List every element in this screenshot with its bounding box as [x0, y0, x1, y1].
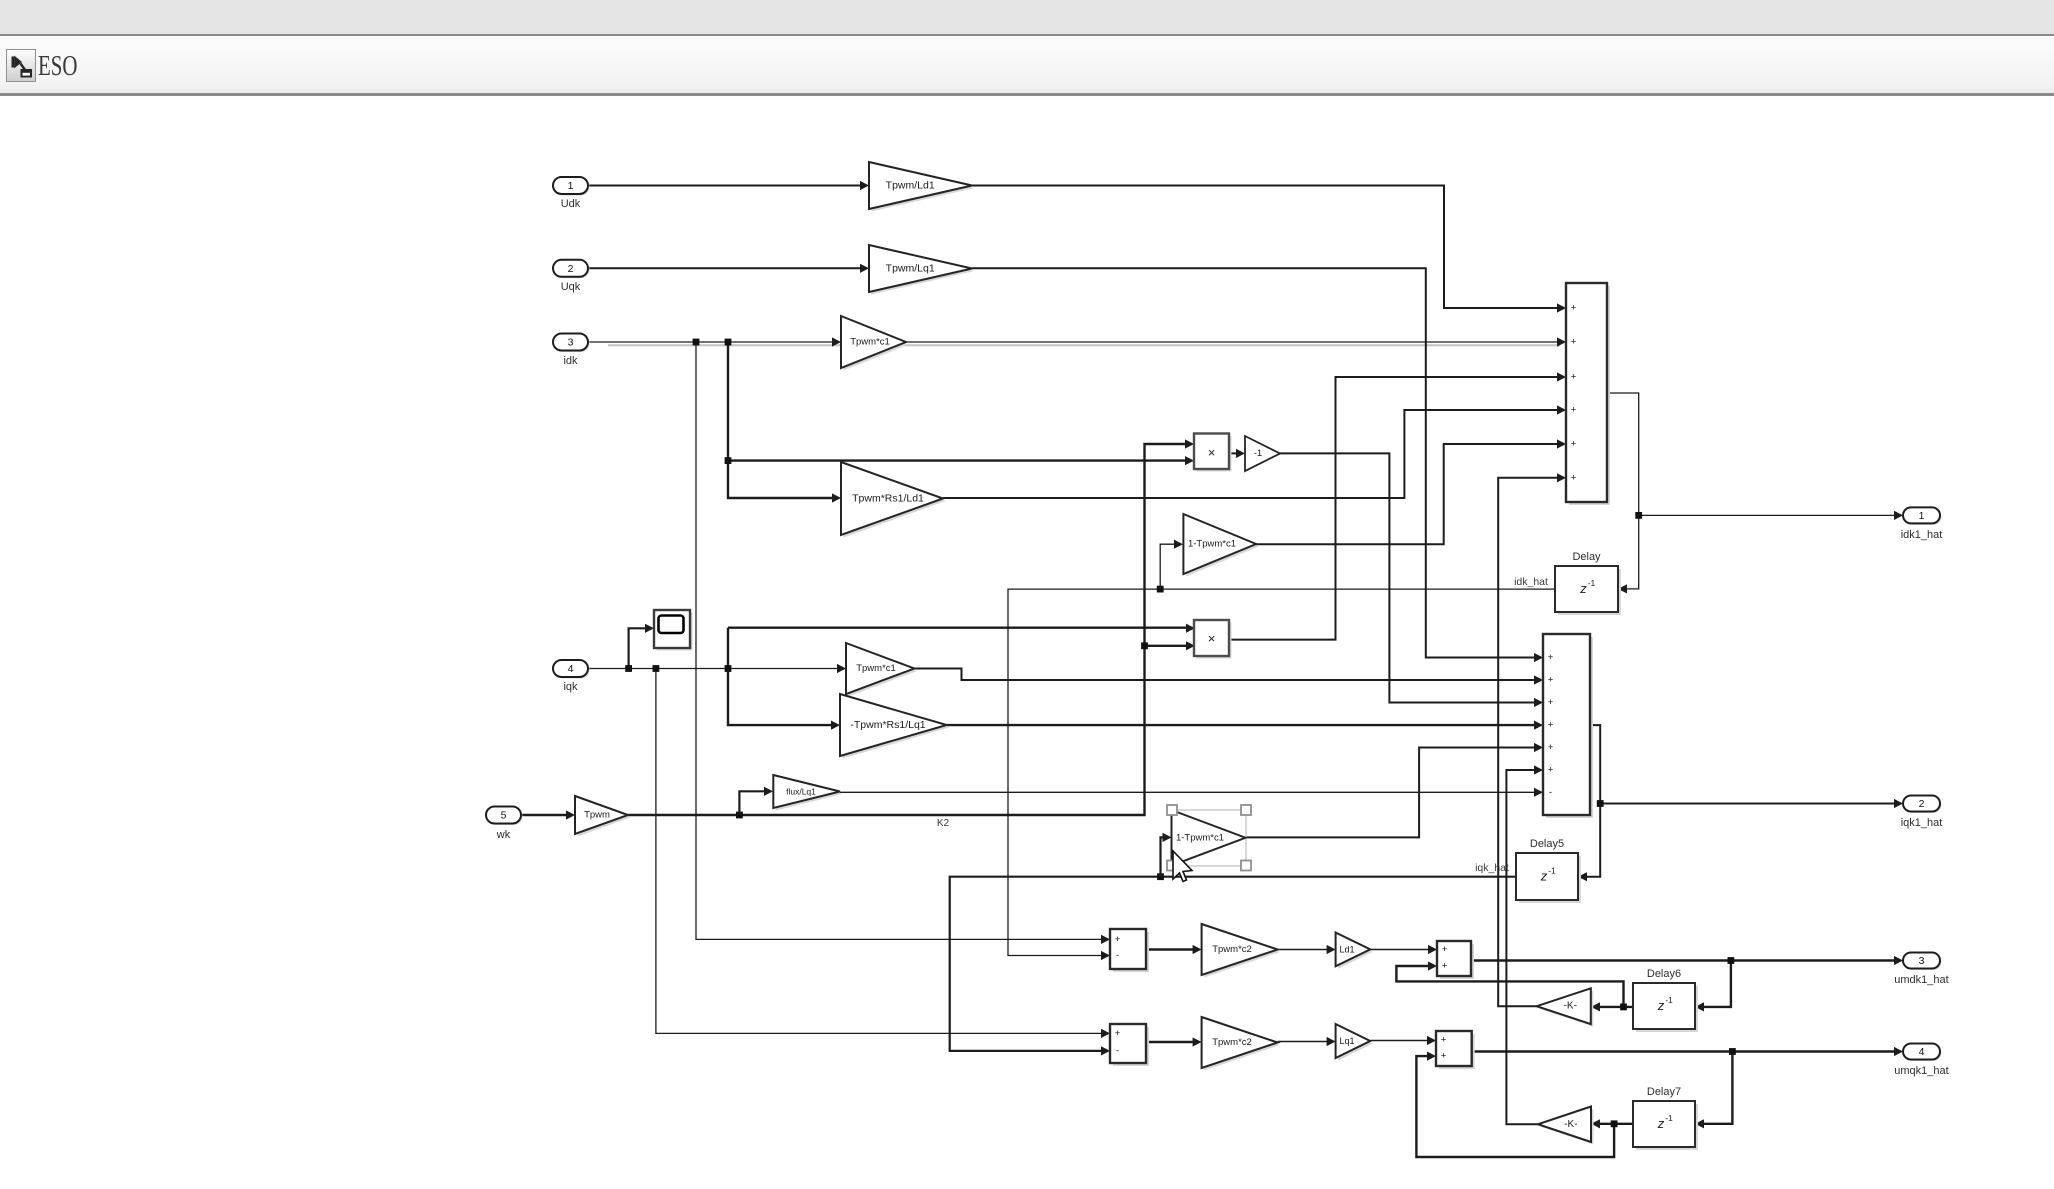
gain -Tpwm*Rs1/Lq1: [840, 694, 949, 759]
Delay block (z^-1) with signal label idk_hat: [1514, 551, 1621, 615]
svg-text:+: +: [1548, 720, 1554, 731]
gain -K- second: [1538, 1107, 1594, 1145]
svg-text:Udk: Udk: [561, 198, 581, 210]
wire: iqk_hat junction up into selected gain 1-Tpwm*c1: [1161, 833, 1172, 877]
svg-text:umdk1_hat: umdk1_hat: [1894, 974, 1948, 986]
svg-text:Tpwm/Ld1: Tpwm/Ld1: [886, 180, 935, 192]
svg-text:idk_hat: idk_hat: [1514, 576, 1548, 588]
input port 4 iqk: [553, 660, 590, 693]
wire: iqk branch to product X2 input1 and gain -Tpwm*Rs1/Lq1: [725, 624, 1195, 730]
gain flux/Lq1: [773, 775, 842, 811]
svg-text:iqk: iqk: [563, 681, 578, 693]
output port 4 umqk1_hat: [1894, 1044, 1948, 1078]
svg-text:+: +: [1548, 675, 1554, 686]
wire: gain Tpwm*c1 second to sum S2 input2: [914, 669, 1543, 685]
svg-text:×: ×: [1208, 631, 1216, 646]
Delay7 block (z^-1): [1633, 1086, 1698, 1150]
svg-text:+: +: [1571, 372, 1577, 383]
selected gain 1-Tpwm*c1 second with selection handles: [1167, 805, 1251, 871]
wire: sum S4 output to outport4 and Delay7: [1472, 1047, 1903, 1129]
svg-text:z: z: [1540, 869, 1548, 884]
svg-text:+: +: [1571, 337, 1577, 348]
svg-text:Delay6: Delay6: [1647, 968, 1681, 980]
subsystem icon button: [6, 49, 36, 82]
gain Ld1: [1336, 933, 1373, 969]
output port 3 umdk1_hat: [1894, 953, 1948, 987]
Delay5 block (z^-1) with signal label iqk_hat: [1475, 838, 1581, 903]
svg-text:-K-: -K-: [1564, 1119, 1577, 1130]
input port 1 Udk: [553, 177, 590, 210]
wire: selected gain 1-Tpwm*c1 to sum S2 input5: [1246, 743, 1544, 838]
svg-text:+: +: [1571, 439, 1577, 450]
svg-text:-: -: [1116, 1045, 1119, 1056]
gray drag-shadow under idk wire: [608, 344, 1560, 346]
svg-text:+: +: [1115, 1028, 1121, 1039]
svg-text:×: ×: [1208, 445, 1216, 460]
svg-text:+: +: [1548, 652, 1554, 663]
svg-text:Tpwm*c1: Tpwm*c1: [856, 663, 896, 674]
wire: iqk branch up to scope: [625, 624, 654, 672]
sum S1: [1566, 283, 1610, 505]
svg-text:-Tpwm*Rs1/Lq1: -Tpwm*Rs1/Lq1: [850, 719, 925, 731]
window top gray bar: [0, 0, 2054, 36]
svg-text:-: -: [1549, 787, 1552, 798]
svg-text:z: z: [1579, 581, 1587, 596]
gain Tpwm*c1 second: [846, 643, 917, 697]
svg-text:-1: -1: [1254, 448, 1262, 459]
wire: gain Tpwm/Lq1 to sum S2 input1: [972, 268, 1543, 662]
svg-text:K2: K2: [937, 818, 950, 829]
wire: idk_hat feedback from Delay to sum S5 minus input: [1008, 586, 1555, 960]
svg-text:iqk_hat: iqk_hat: [1475, 862, 1509, 874]
wire: gain -1 to sum S2 input3: [1280, 453, 1543, 707]
svg-text:1-Tpwm*c1: 1-Tpwm*c1: [1188, 539, 1236, 550]
svg-text:-1: -1: [1548, 866, 1556, 876]
wire: sum S5 to gain Tpwm*c2: [1146, 945, 1202, 954]
svg-text:-1: -1: [1665, 1113, 1673, 1123]
svg-text:Tpwm/Lq1: Tpwm/Lq1: [886, 263, 935, 275]
svg-text:z: z: [1657, 998, 1665, 1013]
gain Tpwm*c1: [841, 316, 909, 371]
wire: sum S3 output to outport3 and Delay6: [1471, 956, 1903, 1012]
wire: product X1 to gain -1: [1229, 449, 1245, 458]
svg-text:+: +: [1115, 934, 1121, 945]
svg-text:+: +: [1571, 473, 1577, 484]
svg-text:Tpwm*c1: Tpwm*c1: [850, 337, 890, 348]
sum S3: [1437, 941, 1474, 979]
svg-text:+: +: [1571, 405, 1577, 416]
output port 1 idk1_hat: [1901, 507, 1943, 541]
wire: product X2 to sum S1 input3: [1229, 372, 1566, 639]
gain Tpwm*c2 second: [1202, 1017, 1281, 1071]
input port 2 Uqk: [553, 260, 590, 293]
svg-text:umqk1_hat: umqk1_hat: [1894, 1065, 1948, 1077]
mouse cursor: [1173, 851, 1192, 882]
svg-text:Tpwm*Rs1/Ld1: Tpwm*Rs1/Ld1: [852, 493, 924, 505]
wire: Delay7 output to gain -K- second and around to sum S4 input2: [1416, 1052, 1633, 1158]
svg-text:2: 2: [568, 263, 574, 275]
wire: gain -Tpwm*Rs1/Lq1 to sum S2 input4: [947, 721, 1543, 730]
svg-text:+: +: [1548, 765, 1554, 776]
product X1: [1194, 434, 1232, 472]
svg-text:-1: -1: [1665, 995, 1673, 1005]
wire: gain -K- output up to sum S1 input6: [1498, 473, 1566, 1006]
Delay6 block (z^-1): [1633, 968, 1698, 1032]
wire: gain Tpwm*c1 to sum S1 input2: [906, 337, 1566, 346]
gain Tpwm/Ld1: [869, 162, 975, 212]
wire: gain -K- second output up to sum S2 input6: [1506, 765, 1543, 1124]
svg-text:Tpwm*c2: Tpwm*c2: [1212, 1037, 1252, 1048]
gain Tpwm K2: [575, 796, 631, 837]
wire: gain Tpwm output along wk line up to product X1 input1 and X2 input2: [628, 439, 1195, 818]
svg-text:1-Tpwm*c1: 1-Tpwm*c1: [1176, 832, 1224, 843]
wire: port3 idk to gain Tpwm*c1: [588, 337, 841, 346]
wire: sum S1 output to outport1 and Delay: [1607, 393, 1903, 594]
svg-text:1: 1: [1919, 510, 1925, 522]
wire: sum S2 output to outport2 and Delay5: [1578, 725, 1903, 881]
wire: gain Tpwm*c2 to gain Ld1: [1278, 945, 1336, 954]
wire: gain 1-Tpwm*c1 to sum S1 input5: [1256, 439, 1566, 544]
svg-text:iqk1_hat: iqk1_hat: [1901, 817, 1943, 829]
sum S4: [1436, 1031, 1475, 1069]
svg-text:flux/Lq1: flux/Lq1: [786, 787, 816, 797]
svg-text:Tpwm: Tpwm: [584, 810, 610, 821]
svg-text:+: +: [1442, 961, 1448, 972]
wire: gain Ld1 to sum S3 input1: [1370, 945, 1437, 954]
breadcrumb bar: [0, 37, 2054, 96]
scope block: [654, 610, 693, 651]
wire: gain Tpwm*Rs1/Ld1 to sum S1 input4: [943, 405, 1566, 498]
wire: gain Tpwm/Ld1 to sum S1 input1: [972, 186, 1566, 313]
sum S6: [1110, 1024, 1149, 1066]
svg-text:1: 1: [568, 180, 574, 192]
wire: port5 wk to gain Tpwm: [521, 810, 575, 819]
svg-text:+: +: [1548, 697, 1554, 708]
wire: iqk branch down to sum S6 plus input: [653, 665, 1111, 1038]
gain Tpwm*c2: [1202, 924, 1281, 978]
svg-text:4: 4: [568, 663, 574, 675]
svg-text:3: 3: [568, 337, 574, 349]
wire: port2 Uqk to gain Tpwm/Lq1: [588, 264, 869, 273]
svg-text:+: +: [1442, 944, 1448, 955]
svg-text:Delay7: Delay7: [1647, 1086, 1681, 1098]
sum S2: [1543, 634, 1593, 818]
svg-text:z: z: [1657, 1116, 1665, 1131]
input port 5 wk: [486, 807, 523, 842]
input port 3 idk: [553, 334, 590, 368]
gain Tpwm/Lq1: [869, 245, 975, 295]
output port 2 iqk1_hat: [1901, 796, 1943, 830]
svg-text:-K-: -K-: [1564, 1001, 1577, 1012]
wire: idk_hat junction up into gain 1-Tpwm*c1: [1160, 540, 1183, 590]
svg-text:Delay: Delay: [1572, 551, 1601, 563]
sum S5: [1110, 929, 1149, 972]
svg-text:+: +: [1441, 1035, 1447, 1046]
wire: iqk_hat feedback from Delay5 to sum S6 minus input: [950, 873, 1516, 1055]
svg-text:+: +: [1571, 303, 1577, 314]
wire: Delay6 output to gain -K- and up to sum S3 input2: [1396, 961, 1633, 1011]
wire: port1 Udk to gain Tpwm/Ld1: [588, 181, 869, 190]
svg-text:Ld1: Ld1: [1339, 944, 1354, 954]
gain -1: [1245, 436, 1280, 471]
svg-text:+: +: [1548, 742, 1554, 753]
svg-text:+: +: [1441, 1051, 1447, 1062]
wire: gain Lq1 to sum S4 input1: [1370, 1036, 1436, 1045]
product X2: [1194, 620, 1232, 659]
wire: gain flux/Lq1 to sum S2 minus input7: [840, 788, 1543, 797]
svg-text:Uqk: Uqk: [561, 281, 581, 293]
gain 1-Tpwm*c1: [1183, 514, 1258, 577]
svg-text:idk: idk: [563, 355, 578, 367]
svg-text:idk1_hat: idk1_hat: [1901, 529, 1943, 541]
wire: port4 iqk to gain Tpwm*c1 second: [588, 664, 846, 673]
svg-text:2: 2: [1919, 798, 1925, 810]
svg-text:Lq1: Lq1: [1339, 1036, 1354, 1046]
gain Lq1: [1336, 1024, 1373, 1061]
gain Tpwm*Rs1/Ld1: [841, 462, 946, 538]
gain -K-: [1537, 988, 1594, 1026]
svg-text:Delay5: Delay5: [1530, 838, 1564, 850]
svg-text:5: 5: [501, 810, 507, 822]
wire: sum S6 to gain Tpwm*c2 second: [1146, 1037, 1202, 1046]
wire: gain Tpwm*c2 second to gain Lq1: [1278, 1037, 1336, 1046]
svg-text:3: 3: [1919, 955, 1925, 967]
wire: idk branch down to product X1 input2 and gain Tpwm*Rs1/Ld1: [725, 339, 1194, 503]
svg-text:wk: wk: [496, 829, 511, 841]
svg-text:4: 4: [1919, 1046, 1925, 1058]
wire: idk branch down to sum S5 plus input: [693, 339, 1110, 944]
svg-text:-1: -1: [1588, 578, 1596, 588]
wire: wk branch up to gain flux/Lq1: [739, 787, 773, 815]
svg-text:-: -: [1116, 950, 1119, 961]
svg-text:Tpwm*c2: Tpwm*c2: [1212, 944, 1252, 955]
